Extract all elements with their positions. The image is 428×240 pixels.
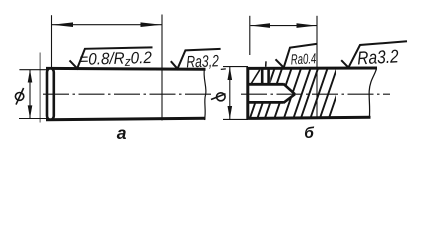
- extension line left of length dimension (view a): [51, 15, 53, 68]
- dimension arrowhead right (view a): [141, 22, 162, 27]
- hatching (view b): [250, 67, 347, 120]
- length dimension line (view b): [250, 25, 316, 27]
- break line (view b): [369, 69, 376, 119]
- diameter bottom extension line (view b): [223, 118, 248, 120]
- faint construction line near end face (view a): [39, 53, 41, 123]
- svg-text:б: б: [304, 125, 314, 142]
- extension line left of length dimension (view b): [249, 16, 251, 55]
- diameter bottom extension line (view a): [19, 118, 47, 120]
- roughness symbol check Ra0.4 (view b): [276, 44, 317, 68]
- shaft bottom edge (view b): [247, 117, 371, 118]
- groove bar right (view b): [267, 70, 270, 85]
- groove bar left (view b): [261, 70, 264, 85]
- phi symbol (view a): [15, 88, 23, 105]
- diameter top extension line (view a): [19, 69, 47, 71]
- svg-text:а: а: [117, 123, 127, 143]
- shaft top edge (view b): [247, 67, 377, 70]
- shaft bottom edge (view a): [46, 118, 206, 120]
- diameter arrowhead down (view b): [228, 106, 233, 119]
- diameter arrowhead up (view b): [228, 67, 233, 80]
- center hole cone lower edge (view b): [284, 94, 295, 103]
- shaft top edge (view a): [46, 67, 206, 71]
- diameter top extension line (view b): [223, 66, 248, 68]
- center hole cone upper edge (view b): [284, 84, 295, 94]
- hatch line between face and slot (view b): [251, 70, 259, 84]
- svg-text:Ra3,2: Ra3,2: [186, 52, 219, 71]
- diameter dimension line (view a): [29, 70, 31, 119]
- svg-text:Ra3.2: Ra3.2: [357, 45, 400, 68]
- diameter arrowhead up (view a): [28, 70, 33, 83]
- small tick above top edge (view b): [265, 61, 267, 67]
- center hole bottom boundary (view b): [248, 101, 284, 104]
- phi symbol (view b): [211, 93, 226, 101]
- roughness symbol check Ra3,2 (view a): [171, 49, 221, 69]
- break line (view a): [204, 69, 206, 121]
- extension line right / roughness boundary (view b): [316, 16, 318, 117]
- center hole top boundary (view b): [248, 83, 284, 86]
- dimension arrowhead left (view b): [250, 23, 270, 28]
- svg-text:Ra0.4: Ra0.4: [290, 51, 316, 68]
- roughness symbol check Ra3.2 (view b): [341, 41, 407, 67]
- extension line right / roughness zone boundary (view a): [161, 15, 163, 121]
- diameter dimension line (view b): [229, 67, 231, 119]
- dimension arrowhead right (view b): [297, 23, 317, 28]
- centerline (view a): [43, 93, 215, 95]
- centerline (view b): [241, 93, 390, 95]
- roughness symbol check =0.8/Rz0.2 (view a): [70, 47, 153, 68]
- stray dash after Ra3,2 (view a): [221, 68, 226, 71]
- svg-text:=0.8/Rz0.2: =0.8/Rz0.2: [79, 49, 152, 70]
- length dimension line (view a): [52, 24, 162, 26]
- dimension arrowhead left (view a): [52, 22, 73, 27]
- shaft left face (view b): [246, 67, 249, 119]
- diameter arrowhead down (view a): [28, 105, 33, 118]
- shaft end chamfer rounded face (view a): [47, 69, 54, 120]
